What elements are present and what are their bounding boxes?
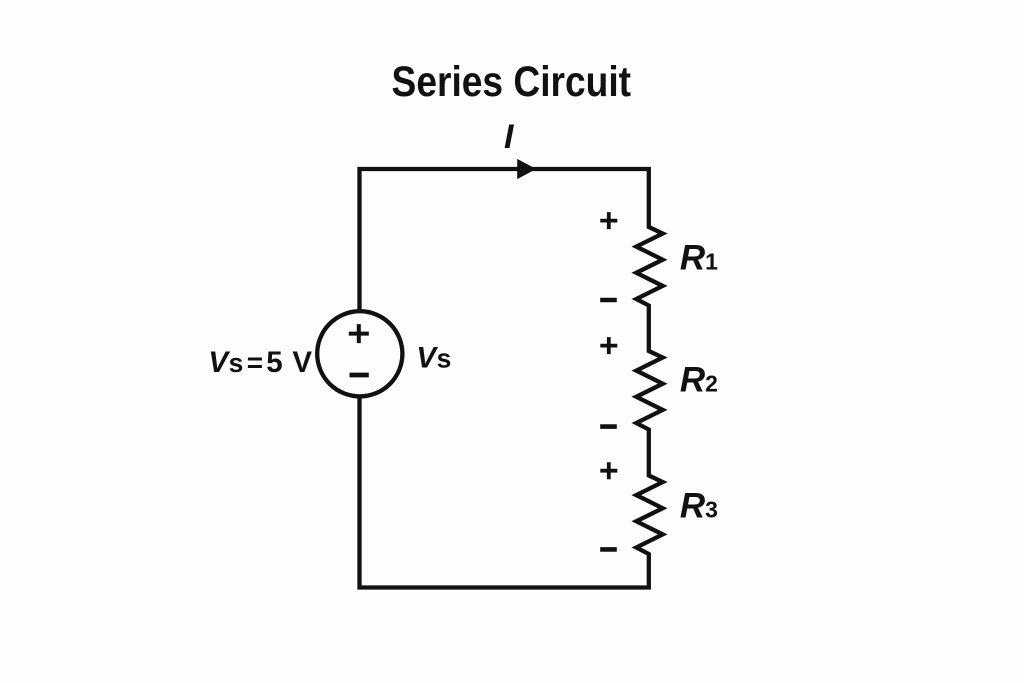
- svg-text:I: I: [504, 118, 515, 156]
- svg-text:s: s: [437, 344, 452, 374]
- svg-text:V: V: [416, 342, 438, 375]
- svg-text:s: s: [229, 348, 244, 378]
- svg-text:=: =: [247, 347, 263, 378]
- svg-text:V: V: [208, 346, 230, 379]
- svg-text:5: 5: [266, 346, 282, 379]
- svg-text:Series Circuit: Series Circuit: [392, 58, 632, 106]
- svg-text:V: V: [292, 346, 312, 379]
